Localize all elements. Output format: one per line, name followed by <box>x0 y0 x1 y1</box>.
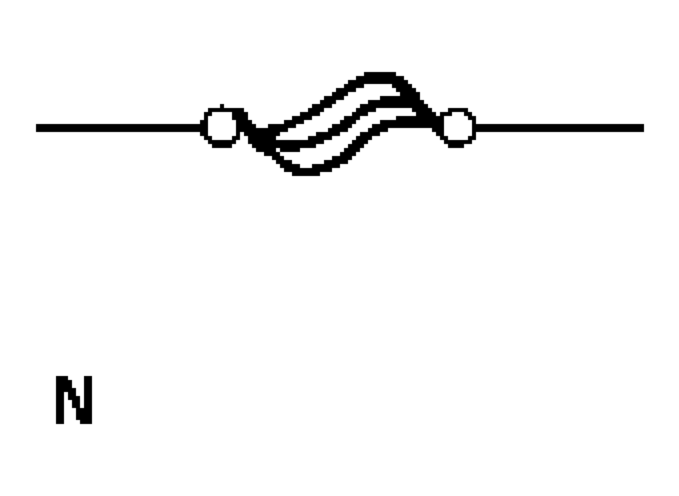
wire left segment <box>36 124 204 131</box>
wavy strand 2 (middle) <box>256 102 418 145</box>
wire right segment <box>475 124 642 131</box>
wavy strand 1 (top) <box>251 77 405 132</box>
terminal circle right <box>439 109 475 145</box>
right convergence bar (arrow into circle) <box>400 82 436 126</box>
wavy strand 3 (bottom) <box>258 122 427 173</box>
terminal circle left <box>204 109 240 145</box>
left convergence bar <box>239 116 259 144</box>
